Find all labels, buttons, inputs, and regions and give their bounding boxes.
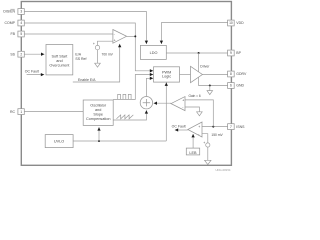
node junction dot GND — [209, 85, 211, 87]
wire DIS/EN to LDO top — [24, 12, 146, 45]
wire 150mV source to ground — [207, 147, 209, 160]
voltage source 700mV — [95, 45, 99, 49]
comparator OC overcurrent — [188, 122, 202, 137]
svg-text:DIS/EN: DIS/EN — [3, 10, 15, 14]
pin box 3 DIS/EN — [18, 9, 24, 15]
pin box 9 BP — [228, 50, 235, 56]
ground under 700mV — [95, 63, 101, 67]
svg-text:5: 5 — [20, 32, 22, 36]
waveform ramp symbol — [117, 115, 134, 119]
wire ISNS riser to gain amp input — [185, 100, 213, 127]
node junction dot E/A output — [134, 35, 136, 37]
pin box 2 SS — [18, 51, 24, 57]
pin box 8 GDRV — [228, 71, 235, 77]
amplifier Driver — [191, 66, 203, 82]
block UVLO — [45, 135, 73, 148]
svg-text:9: 9 — [230, 51, 232, 55]
svg-text:+: + — [114, 39, 116, 43]
wire OC Fault into Soft Start block — [27, 74, 45, 76]
node junction dot BP driver supply — [198, 52, 200, 54]
svg-text:+: + — [182, 99, 184, 103]
wire BP to Driver supply — [198, 53, 200, 72]
block Oscillator and Slope Compensation — [83, 100, 113, 125]
pin box 4 COMP — [18, 20, 24, 26]
svg-text:150 mV: 150 mV — [211, 133, 223, 137]
ground under GND line — [207, 91, 213, 95]
wire Driver to GDRV — [202, 74, 227, 76]
node junction dot ISNS — [212, 126, 214, 128]
block Soft Start and Overcurrent — [46, 45, 73, 75]
waveform clock symbol — [118, 94, 131, 99]
svg-text:SS Ref: SS Ref — [75, 57, 86, 61]
wire 700mV ref to E/A non-inverting input — [98, 41, 113, 45]
svg-text:Gain = 6: Gain = 6 — [189, 94, 201, 98]
svg-text:RC: RC — [10, 110, 16, 114]
svg-text:Oscillator: Oscillator — [90, 104, 107, 108]
svg-text:Enable E/A: Enable E/A — [78, 78, 96, 82]
pin box 10 VDD — [228, 20, 235, 26]
svg-text:ISNS: ISNS — [236, 125, 245, 129]
block LDO — [140, 45, 166, 59]
ground under 150mV — [205, 160, 211, 164]
pin box 5 FB — [18, 31, 24, 37]
wire VDD to LDO top — [161, 23, 227, 44]
svg-text:+: + — [198, 125, 200, 129]
wire oscillator ramp to summing node — [113, 110, 146, 120]
block LEB — [186, 148, 199, 155]
wire Driver ground return to GND — [199, 78, 228, 86]
pin box 1 RC — [18, 109, 24, 115]
svg-text:Driver: Driver — [200, 65, 210, 69]
svg-text:4: 4 — [20, 21, 22, 25]
wire E/A output — [127, 35, 136, 37]
svg-text:UDG-08154: UDG-08154 — [216, 168, 231, 172]
svg-text:Overcurrent: Overcurrent — [49, 64, 70, 68]
wire RC to oscillator — [24, 111, 83, 113]
svg-text:BP: BP — [236, 51, 241, 55]
svg-text:8: 8 — [230, 72, 232, 76]
voltage source 150mV — [206, 143, 210, 147]
wire ISNS to OC comparator — [202, 126, 228, 128]
wire UVLO output — [73, 140, 166, 142]
svg-text:OC Fault: OC Fault — [25, 69, 39, 73]
svg-text:and: and — [56, 59, 62, 63]
wire PWM Logic to Driver — [180, 74, 191, 76]
svg-text:FB: FB — [11, 32, 16, 36]
svg-text:2: 2 — [20, 52, 22, 56]
wire LDO to BP — [166, 52, 227, 54]
svg-text:SS: SS — [10, 52, 15, 56]
svg-text:3: 3 — [20, 10, 22, 14]
wire gain amp output to summing node — [154, 102, 171, 104]
op-amp E/A error amplifier — [113, 30, 127, 44]
wire UVLO to oscillator bottom — [98, 127, 100, 141]
wire 700mV ref to ground — [97, 50, 99, 63]
amplifier Gain=6 current sense — [171, 97, 185, 111]
svg-text:Soft Start: Soft Start — [51, 55, 68, 59]
svg-text:6: 6 — [230, 84, 232, 88]
svg-text:OC Fault: OC Fault — [172, 125, 186, 129]
pin box 6 GND — [228, 83, 235, 89]
svg-text:+: + — [93, 42, 95, 46]
pin box 7 ISNS — [228, 124, 235, 130]
svg-text:LEB: LEB — [189, 151, 197, 155]
wire oscillator clock to PWM Logic input 2 — [113, 75, 153, 100]
ground under gain amp input — [197, 112, 203, 116]
svg-text:Logic: Logic — [162, 75, 171, 79]
wire SS to Soft Start block — [24, 53, 44, 55]
wire FB to E/A inverting input — [24, 33, 113, 35]
summing node — [140, 97, 152, 109]
wire LEB to OC comparator — [192, 134, 194, 148]
wire gain amp inverting input to ground — [185, 107, 199, 112]
wire OC comparator ref input — [202, 134, 208, 143]
wire summing node to PWM Logic input 3 — [146, 78, 153, 96]
svg-text:7: 7 — [230, 125, 232, 129]
svg-text:and: and — [95, 108, 101, 112]
svg-text:GDRV: GDRV — [236, 72, 247, 76]
node junction dot UVLO oscillator — [98, 140, 100, 142]
wire OC comparator output OC Fault — [175, 129, 188, 131]
svg-text:GND: GND — [236, 84, 244, 88]
svg-text:VDD: VDD — [236, 21, 244, 25]
svg-text:1: 1 — [20, 110, 22, 114]
svg-text:Compensation: Compensation — [86, 117, 110, 121]
svg-text:10: 10 — [229, 21, 233, 25]
svg-text:700 mV: 700 mV — [102, 52, 114, 56]
outer boundary box — [21, 2, 231, 166]
svg-text:Slope: Slope — [93, 112, 103, 116]
svg-text:E/A: E/A — [75, 52, 81, 56]
svg-text:UVLO: UVLO — [54, 139, 64, 143]
block PWM Logic — [154, 67, 180, 82]
svg-text:+: + — [203, 141, 205, 145]
wire COMP to E/A output node and PWM Logic input 1 — [24, 23, 153, 71]
wire GND node to ground symbol — [209, 86, 211, 91]
svg-text:LDO: LDO — [150, 51, 158, 55]
wire Enable E/A to error amplifier — [73, 44, 120, 82]
wire CS/UVLO riser to PWM Logic bottom — [165, 83, 167, 142]
svg-text:COMP: COMP — [5, 21, 16, 25]
